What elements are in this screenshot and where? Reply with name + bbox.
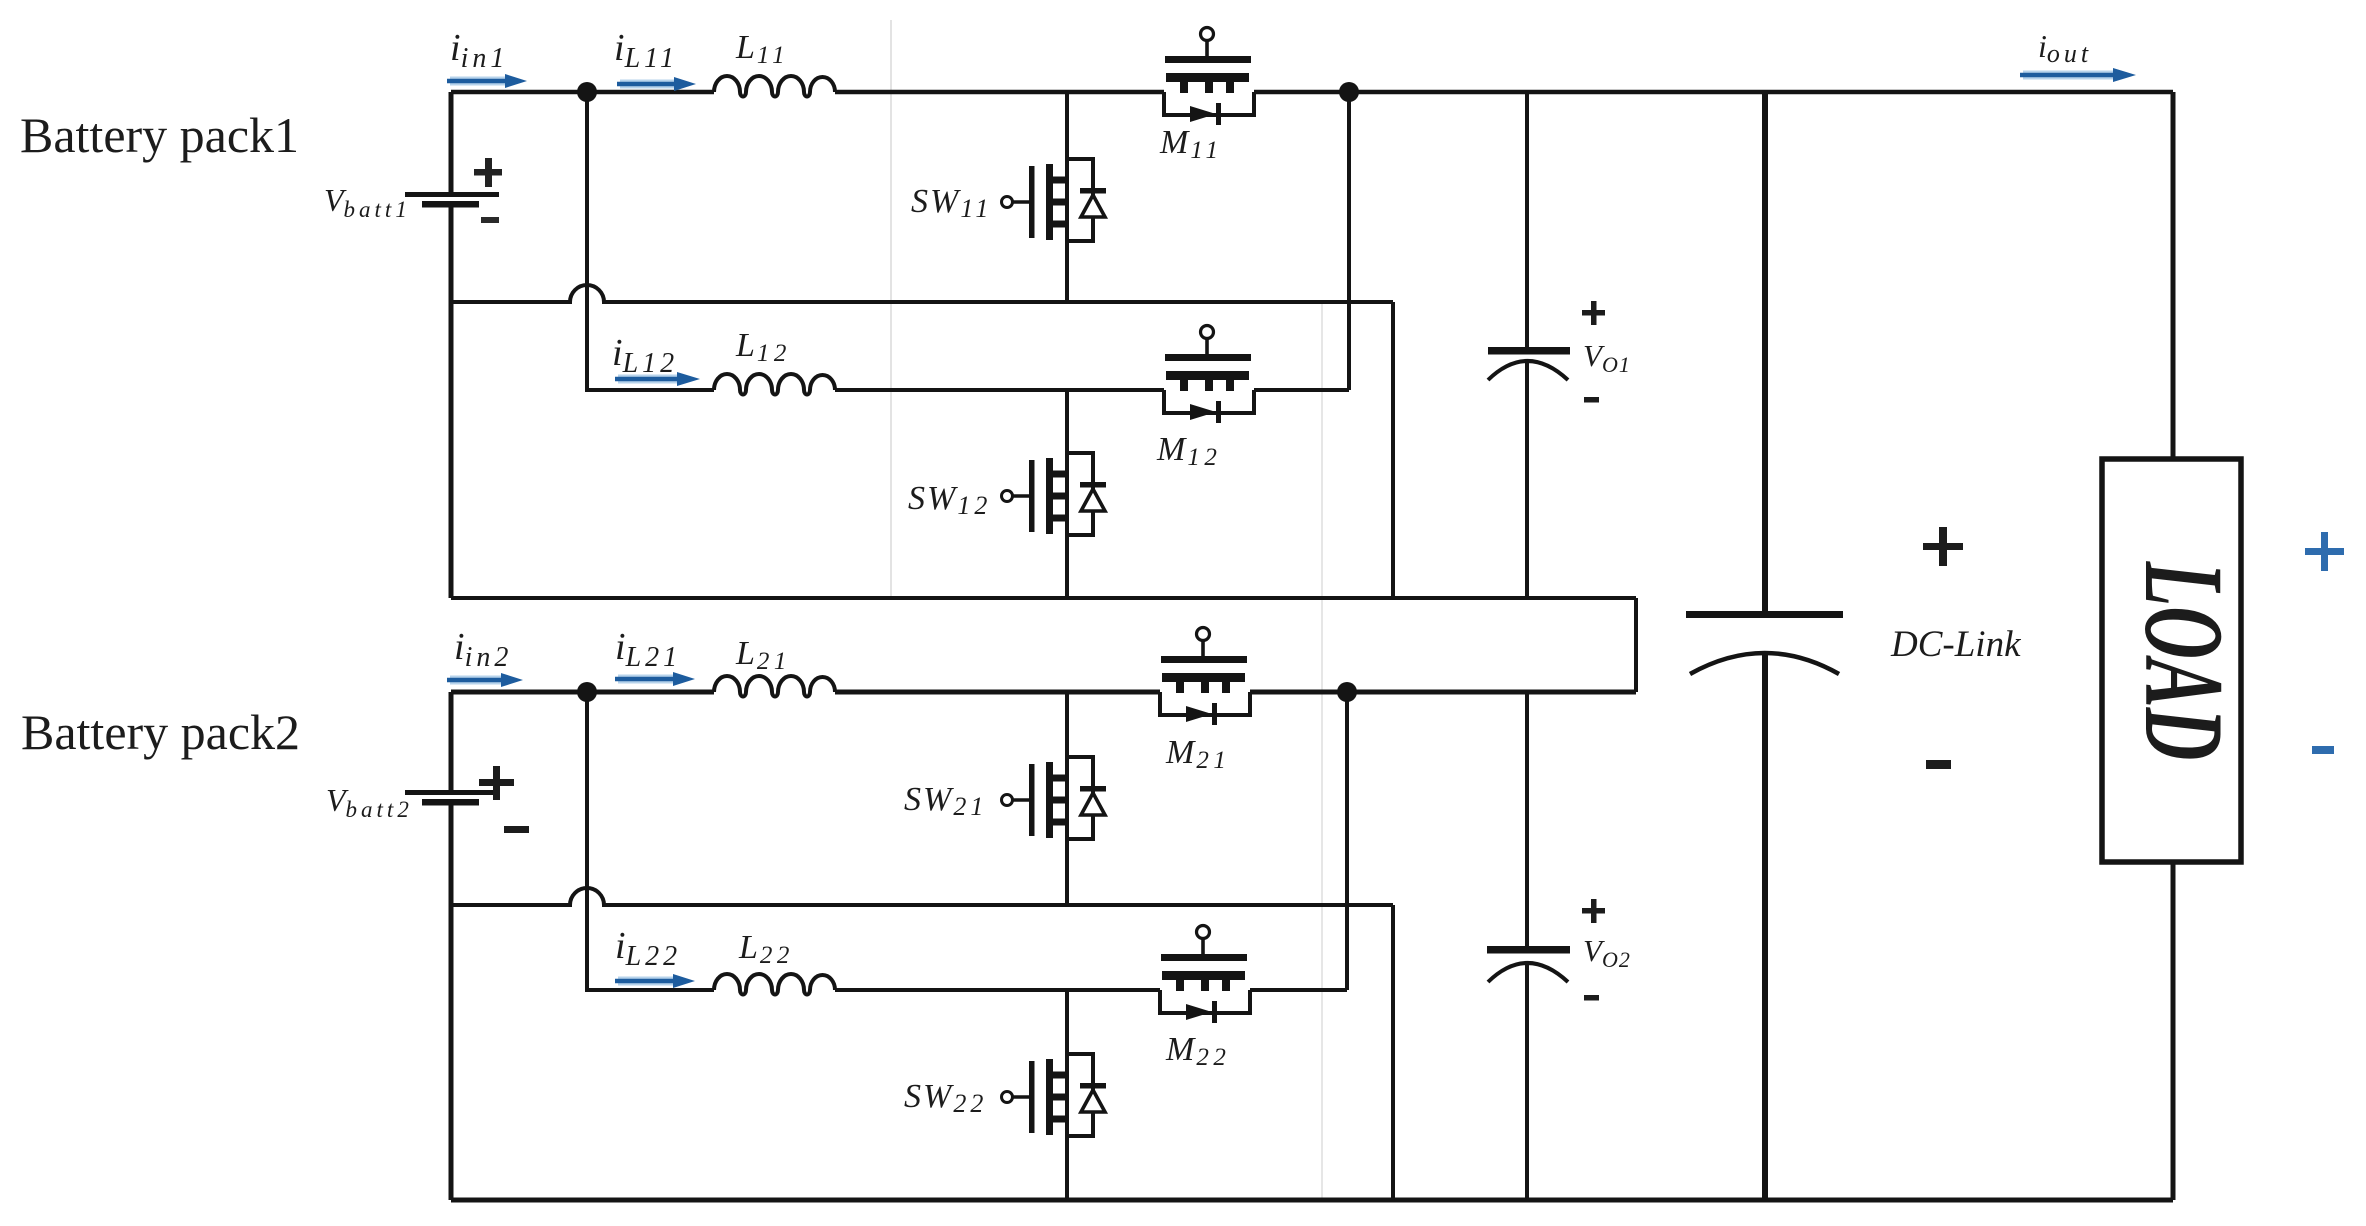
node B: junction M11/M12 outputs [1339,82,1359,102]
wire: battery1 negative return rail with hop [451,285,1393,302]
wire: vertical from rail y302 down to mid rail [1391,302,1395,598]
wire: SW11 drain/source vertical [1065,92,1069,302]
inductor L22 [714,974,835,995]
battery Vbatt2 [405,790,499,806]
wire: phase L22 branch rail [587,692,714,990]
wire: LOAD bottom to bottom rail [2171,862,2176,1200]
wire: battery pack2 positive rail [451,690,714,695]
inductor L21 [714,676,835,697]
wire: battery1 top lead [449,92,454,193]
battery Vbatt1 [405,192,499,208]
inductor L11 [714,76,835,97]
faint artifact line left [890,20,892,598]
transistor M11 [1164,28,1254,126]
capacitor Vo2 [1487,946,1570,982]
wire: SW21 drain/source vertical [1065,692,1069,905]
wire: DC-Link capacitor top lead [1762,92,1768,611]
wire: Vo2 capacitor top lead [1525,692,1529,946]
current arrow iout [2020,68,2136,82]
svg-text:DC-Link: DC-Link [1890,624,2021,665]
svg-text:LOAD: LOAD [2121,561,2247,760]
label Vo1 plus [1582,301,1605,325]
wire: right vertical to LOAD top [2171,92,2176,459]
battery Vbatt1 plus sign [474,158,502,187]
current arrow iin2 [447,673,523,687]
label output minus (blue) [2312,746,2334,754]
current arrow iL11 [617,77,696,91]
wire: SW12 drain/source vertical [1065,390,1069,598]
wire: M12 output up to node dot [1347,92,1351,390]
capacitor Vo1 [1488,347,1570,380]
transistor SW12 [1002,453,1107,535]
wire: battery2 negative return rail with hop [451,888,1393,905]
wire: Vo1 capacitor top lead [1525,92,1529,347]
transistor SW11 [1002,159,1107,241]
transistor SW22 [1002,1054,1107,1136]
wire: M22 output up to node dot [1345,692,1349,990]
battery Vbatt2 plus sign [479,766,514,800]
current arrow iL22 [615,974,695,988]
label output plus (blue) [2305,532,2344,571]
wire: Vo2 capacitor bottom lead [1525,961,1529,1200]
faint artifact line right [1321,302,1323,1198]
battery Vbatt1 minus sign [481,217,499,223]
wire: top rail (output node 1) [451,90,714,95]
label Vo2 minus [1584,995,1599,1001]
node D: junction M21/M22 outputs [1337,682,1357,702]
transistor M12 [1164,326,1254,424]
current arrow iL21 [615,672,695,686]
wire: SW22 drain/source vertical [1065,990,1069,1200]
svg-text:Battery pack2: Battery pack2 [21,704,300,760]
LOAD box [2102,459,2241,862]
wire: phase L12 branch rail [587,92,714,390]
wire: battery2 bottom lead down to bottom rail [449,804,454,1200]
transistor M22 [1160,926,1250,1024]
inductor L12 [714,374,835,395]
battery Vbatt2 minus sign [504,826,529,833]
label Vo2 plus [1582,899,1605,923]
wire: mid rail (battery1 negative / battery2 positive link) [451,596,1636,600]
wire: battery2 top lead [449,692,454,791]
label DC-Link plus [1923,527,1963,566]
label DC-Link minus [1926,760,1951,769]
svg-text:Battery pack1: Battery pack1 [20,107,299,163]
label Vo1 minus [1584,397,1599,403]
wire: DC-Link capacitor bottom lead [1762,653,1768,1200]
node A: junction battery1 / L11 / L12 [577,82,597,102]
current arrow iL12 [615,372,700,386]
transistor SW21 [1002,757,1107,839]
wire: vertical from rail y905 down to bottom rail [1391,905,1395,1200]
capacitor DC-Link [1686,611,1843,674]
transistor M21 [1160,628,1250,726]
node C: junction battery2 / L21 / L22 [577,682,597,702]
current arrow iin1 [447,74,527,88]
wire: bottom rail (negative bus) [451,1198,2173,1203]
wire: Vo1 capacitor bottom lead [1525,362,1529,598]
wire: battery1 bottom lead down to mid rail [449,206,454,598]
wire: mid-rail corner link down to pack2 rail [1634,598,1638,692]
